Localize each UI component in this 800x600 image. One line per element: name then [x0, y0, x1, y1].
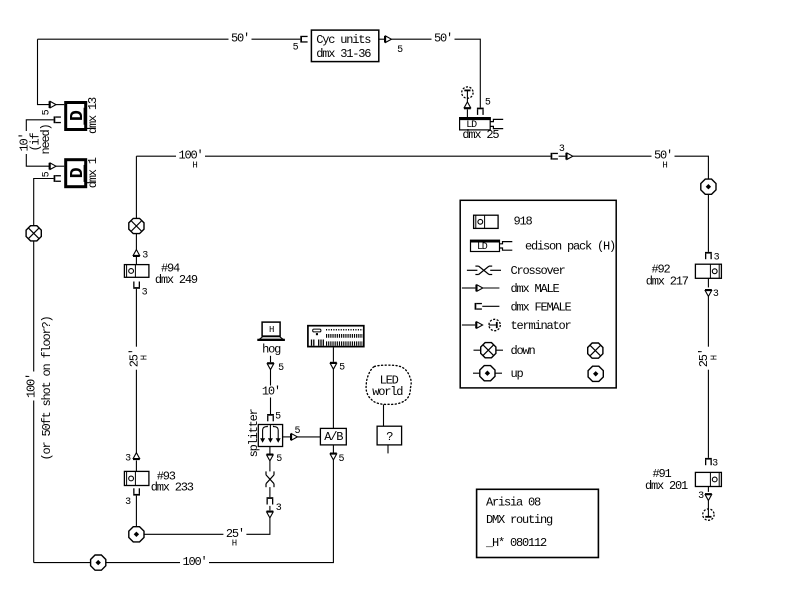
title box: [477, 489, 599, 557]
label 50ft after Cyc units: [432, 32, 455, 46]
dmx MALE mid-run joint: [565, 153, 572, 160]
label 10ft on jumper: [17, 131, 31, 154]
wire male to A/B box: [297, 436, 320, 438]
label (if need): [28, 124, 53, 154]
svg-text:hog: hog: [262, 342, 281, 356]
svg-text:Crossover: Crossover: [511, 264, 566, 278]
svg-text:dmx 1: dmx 1: [86, 157, 100, 188]
legend crossover symbol: [467, 266, 501, 274]
label 100ft H: [176, 149, 205, 171]
svg-text:up: up: [511, 367, 524, 381]
svg-text:dmx 31-36: dmx 31-36: [316, 47, 371, 61]
label 25ft H middle: [127, 347, 141, 370]
svg-text:_H* 080112: _H* 080112: [485, 536, 547, 550]
svg-text:100': 100': [178, 149, 202, 163]
label 50ft on top wire: [229, 32, 252, 46]
terminator below opto 91: [703, 509, 714, 520]
svg-text:dmx 13: dmx 13: [86, 97, 100, 134]
svg-text:10': 10': [262, 385, 280, 399]
dmx MALE to terminator: [464, 102, 471, 109]
dmx FEMALE into opto 92: [705, 252, 712, 259]
svg-text:A/B: A/B: [324, 430, 343, 444]
down symbol on middle drop: [129, 218, 144, 233]
wire 25ft H bottom jog: [136, 496, 270, 535]
opto box 918 number 92: [695, 264, 721, 278]
dmx MALE below hog: [267, 362, 274, 369]
dmx FEMALE into Cyc units box: [300, 36, 307, 43]
dmx FEMALE below D1 input: [54, 175, 61, 182]
dmx MALE below rack: [330, 362, 337, 369]
svg-text:world: world: [372, 385, 403, 399]
svg-text:splitter: splitter: [247, 408, 261, 457]
box A/B switch: [320, 428, 346, 445]
wire crossover chain: [269, 487, 271, 497]
dmx MALE below splitter: [267, 454, 274, 461]
dmx MALE into dimmer D13: [49, 101, 56, 108]
wire stub into D1: [56, 165, 64, 167]
svg-text:edison pack (H): edison pack (H): [525, 239, 615, 253]
svg-text:LD: LD: [477, 242, 488, 253]
wire stub below opto 91: [707, 487, 709, 492]
wire stub below unknown box: [387, 445, 389, 454]
legend 918 symbol: [474, 215, 499, 228]
svg-text:dmx FEMALE: dmx FEMALE: [511, 300, 572, 314]
wire stub LD to terminator male: [466, 109, 468, 117]
opto box 918 number 93: [124, 471, 148, 485]
up symbol on right drop: [701, 179, 716, 194]
wire stub splitter bottom: [269, 447, 271, 454]
dmx MALE into A/B: [290, 434, 297, 441]
splitter box: [258, 425, 282, 447]
edison plug prongs on LD pack: [490, 119, 503, 128]
opto box 918 number 94: [124, 265, 148, 278]
dmx FEMALE below opto 94: [133, 282, 140, 289]
wire stub at mid joint: [559, 155, 566, 157]
wire A/B down to male: [332, 445, 334, 453]
dmx FEMALE mid-run joint: [551, 153, 558, 160]
wire 10ft jumper D13 to D1: [26, 120, 53, 166]
dmx MALE below opto 92: [705, 289, 712, 296]
wire stub into opto 93: [135, 460, 137, 471]
svg-text:need): need): [39, 124, 53, 154]
legend terminator male: [475, 322, 482, 329]
wire 50ft run from Cyc units to LD pack corner: [391, 39, 480, 107]
wire 100ft bottom run: [34, 460, 334, 563]
label (or 50ft shot on floor?): [40, 316, 54, 460]
label 100ft on bottom run: [180, 555, 209, 569]
legend up line: [473, 372, 502, 374]
legend down line: [474, 349, 504, 351]
legend female line: [482, 305, 499, 307]
wire stub into D13: [56, 104, 64, 106]
wire cloud to unknown box: [383, 405, 385, 427]
LED world cloud: [366, 365, 411, 404]
legend up symbol standalone: [588, 366, 603, 381]
legend dmx FEMALE symbol: [475, 303, 482, 310]
legend edison pack symbol: [470, 240, 512, 253]
wire 50ft H run to right side: [573, 156, 709, 252]
label 100ft on left drop: [25, 372, 39, 401]
dmx FEMALE below opto 93: [133, 488, 140, 495]
svg-text:100': 100': [182, 555, 206, 569]
dimmer box D dmx 1: [66, 160, 89, 187]
dmx MALE above opto 93: [133, 453, 140, 460]
wire middle drop from 100ft H: [135, 156, 137, 264]
wire 100ft left drop: [34, 179, 54, 563]
legend male line left: [462, 287, 476, 289]
dmx FEMALE into opto 91: [705, 458, 712, 465]
wire stub male to terminator: [466, 98, 468, 102]
svg-text:50': 50': [231, 32, 249, 46]
label dmx 13: [86, 97, 100, 134]
label 25ft H right: [697, 347, 711, 370]
wire hog to male: [270, 356, 272, 362]
up symbol at bottom jog corner: [129, 527, 144, 542]
crossover X on splitter drop: [266, 471, 274, 487]
hog console icon: [257, 322, 285, 340]
svg-text:dmx 233: dmx 233: [151, 480, 194, 494]
dmx MALE into dimmer D1: [49, 163, 56, 170]
dmx FEMALE below D13 input: [54, 116, 61, 123]
label 5 at D13: [42, 109, 53, 115]
wire splitter to A/B male: [283, 436, 290, 438]
dmx FEMALE into LD pack: [477, 108, 484, 115]
legend down symbol standalone: [588, 343, 603, 358]
wire stub below opto 92: [707, 278, 709, 287]
wire splitter to crossover: [269, 461, 271, 472]
wire 50ft run from top-left corner to Cyc units: [38, 38, 301, 40]
svg-text:50': 50': [434, 32, 452, 46]
svg-text:dmx 217: dmx 217: [646, 274, 689, 288]
dmx MALE at bottom jog end: [267, 511, 274, 518]
opto box 918 number 91: [695, 472, 721, 486]
wire stub jog male to female: [269, 506, 271, 510]
label splitter: [247, 408, 261, 457]
box unknown device: [377, 426, 402, 445]
svg-text:Cyc units: Cyc units: [316, 33, 371, 47]
svg-text:100': 100': [25, 374, 39, 398]
legend box: [460, 200, 616, 388]
legend terminator line: [462, 324, 475, 326]
legend down symbol: [481, 343, 496, 358]
dmx MALE above opto 94: [133, 250, 140, 257]
dmx MALE below opto 91: [705, 493, 712, 500]
wire 25ft H right drop: [707, 296, 709, 458]
down symbol on left drop: [26, 226, 41, 241]
up symbol on bottom run: [91, 555, 106, 570]
wire stub out of Cyc units: [379, 38, 384, 40]
svg-text:down: down: [511, 344, 536, 358]
label 5 at D1: [42, 171, 53, 177]
label dmx 1: [86, 157, 100, 188]
wire 10ft hog to splitter: [270, 370, 272, 414]
legend terminator symbol: [489, 319, 500, 330]
label 25ft H bottom: [223, 527, 246, 549]
svg-text:Arisia 08: Arisia 08: [486, 496, 541, 510]
wire 25ft H middle drop: [135, 289, 137, 453]
edison pack LD dmx 25: [459, 118, 491, 132]
svg-text:dmx MALE: dmx MALE: [511, 282, 560, 296]
dmx FEMALE into splitter: [267, 414, 274, 421]
legend up symbol: [480, 366, 495, 381]
wire down left side to dimmer D13: [38, 39, 51, 104]
wire rack male to A/B: [332, 369, 334, 428]
svg-text:(or 50ft shot on floor?): (or 50ft shot on floor?): [40, 316, 54, 460]
svg-text:?: ?: [386, 430, 393, 444]
rack console icon: [308, 326, 364, 347]
svg-text:dmx 201: dmx 201: [645, 479, 688, 493]
wire 100ft H run: [136, 155, 550, 157]
svg-text:DMX routing: DMX routing: [486, 513, 553, 527]
svg-text:dmx 249: dmx 249: [155, 273, 198, 287]
box Cyc units dmx 31-36: [311, 30, 378, 61]
dmx FEMALE below crossover chain: [267, 497, 274, 504]
legend male line right: [483, 287, 500, 289]
svg-text:terminator: terminator: [511, 319, 572, 333]
terminator above LD pack: [462, 87, 473, 98]
dmx MALE below A/B: [330, 453, 337, 460]
legend dmx MALE symbol: [475, 285, 482, 292]
dimmer box D dmx 13: [66, 103, 89, 130]
wire to bottom terminator: [707, 501, 709, 509]
svg-text:918: 918: [514, 215, 533, 229]
label 50ft H right: [652, 149, 675, 171]
dmx MALE out of Cyc units: [384, 36, 391, 43]
label 10ft hog drop: [259, 385, 282, 399]
svg-text:dmx 25: dmx 25: [462, 128, 499, 142]
wire rack to male: [332, 347, 334, 361]
